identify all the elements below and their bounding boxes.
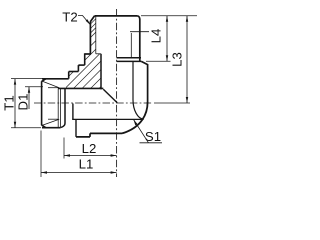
extension line shoulder right — [146, 60, 171, 62]
svg-text:L3: L3 — [170, 52, 185, 67]
extension line top face right — [141, 15, 197, 17]
horizontal centerline of left port — [34, 102, 152, 104]
dimension T1 — [14, 79, 16, 128]
thread runout edge — [61, 89, 65, 128]
svg-text:L4: L4 — [149, 29, 164, 44]
extension line port axis right — [154, 102, 190, 104]
thread shoulder double line right side — [117, 58, 142, 62]
outer corner arc of elbow body — [122, 102, 148, 133]
inner corner 45deg chamfer — [103, 89, 117, 103]
svg-text:L2: L2 — [82, 141, 97, 156]
left port chamfer cone + root lines — [42, 81, 60, 127]
bore line vertical arm — [132, 62, 134, 100]
left port hex face — [73, 104, 76, 137]
top port thread root lines (thin) — [96, 16, 149, 58]
bore / hex top line horizontal arm — [72, 118, 143, 120]
bore corner fillet arc — [133, 100, 144, 119]
vertical centerline of top port — [116, 9, 118, 177]
hatch section fill of quarter-section body — [30, 0, 182, 161]
top port male thread outline — [85, 16, 140, 61]
svg-text:T2: T2 — [62, 9, 77, 24]
extension lines left port — [11, 79, 64, 177]
left staircase section profile — [69, 53, 85, 78]
dimension D1 — [28, 87, 30, 109]
dimension L4 — [166, 16, 168, 62]
horizontal bore wall in section (hatch bottom) — [58, 87, 103, 89]
svg-text:L1: L1 — [79, 157, 94, 172]
body bottom edge — [76, 133, 122, 137]
shoulder chamfer and body right face — [141, 61, 147, 102]
svg-text:S1: S1 — [145, 129, 161, 144]
dimension L1 — [41, 172, 117, 174]
svg-text:D1: D1 — [16, 94, 31, 111]
vertical bore wall in section — [100, 54, 102, 90]
left port male thread — [42, 79, 69, 128]
dimension L3 — [186, 16, 188, 103]
svg-text:T1: T1 — [2, 95, 17, 110]
dimension L2 — [64, 155, 117, 157]
